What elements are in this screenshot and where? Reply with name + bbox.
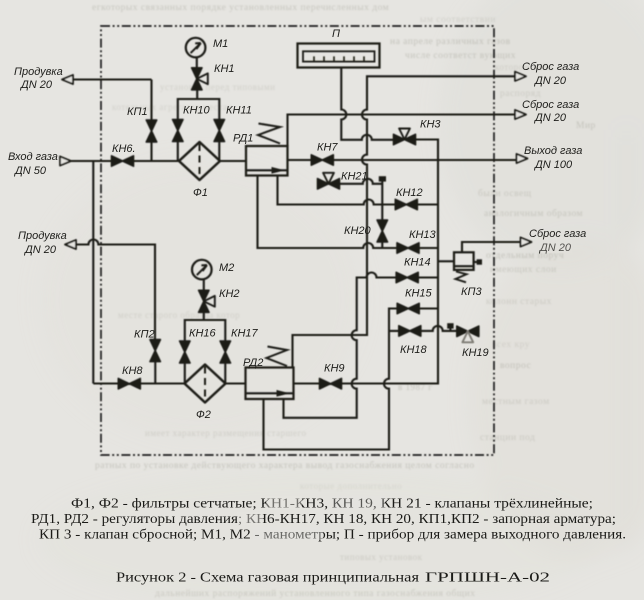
valve KN16 [180,341,190,363]
svg-text:Сброс газа: Сброс газа [529,228,586,240]
valve KN19 three-way [457,326,479,342]
svg-text:егкоторых связанных порядке ус: егкоторых связанных порядке установленны… [92,3,389,13]
valve KN3 three-way [394,129,416,145]
svg-text:типовых установок: типовых установок [340,552,423,562]
svg-text:КН13: КН13 [409,229,437,241]
svg-text:Выход газа: Выход газа [524,145,582,157]
svg-text:КП 3 - клапан сбросной; М1, М2: КП 3 - клапан сбросной; М1, М2 - маномет… [39,527,626,542]
regulator RD2 [246,347,294,400]
wire: KN3 right port to sensing column [342,140,438,384]
svg-text:КН3: КН3 [420,119,441,131]
wire: box over F2 with KN16 KN17 legs [185,320,226,384]
svg-text:Вход газа: Вход газа [8,151,58,163]
wire: KP1 riser [150,80,152,162]
svg-text:ым соответствии: ым соответствии [420,15,496,25]
wire: KN9 to column bottom corner [342,382,438,384]
arrow: inlet Вход газа ДН 50 [60,156,71,165]
svg-text:распоряд: распоряд [500,89,541,99]
svg-text:КН14: КН14 [404,257,431,269]
valve KN21 three-way [318,173,340,189]
svg-text:станции под: станции под [480,433,535,443]
valve KN15 [397,303,419,313]
wire: KN18 line with hop over column, stub and KN19 [389,326,457,331]
wire: RD1 outlet to KN7 and outlet header [288,159,517,161]
svg-text:РД1, РД2 - регуляторы давления: РД1, РД2 - регуляторы давления; КН6-КН17… [31,511,616,526]
valve KN14 [396,272,418,282]
svg-text:ратных по установке действующе: ратных по установке действующего характе… [95,460,475,471]
wire: bypass box over F1 with KN10 KN11 legs [178,99,220,161]
arrow: Продувка ДН 20 upper [62,75,73,84]
svg-text:КН10: КН10 [183,105,211,117]
svg-text:ДN 20: ДN 20 [533,112,567,124]
valve KN6 [112,156,134,166]
wire: KN21 right line to stub [339,179,382,184]
svg-text:КП3: КП3 [461,286,482,298]
svg-text:были освещ: были освещ [478,188,532,199]
valve KN2 three-way [199,290,215,312]
wire: RD2 outlet to KN9 and up-column junction [294,382,343,384]
svg-text:П: П [332,28,340,40]
svg-text:ДN 100: ДN 100 [533,159,573,171]
svg-text:Рисунок 2 - Схема газовая прин: Рисунок 2 - Схема газовая принципиальная [116,570,419,585]
svg-text:ГРПШН-А-02: ГРПШН-А-02 [425,570,550,585]
valve KN9 [320,379,342,389]
arrow: Сброс газа ДН 20 second [515,110,526,119]
relief valve KP3 [454,252,482,282]
wire: KN15 line and left column to RD2 left leg [264,309,439,450]
valve KP1 [146,120,156,142]
cap square on KN19 stub [448,324,454,329]
valve KN18 [399,326,421,336]
valve KN1 three-way [192,68,208,90]
svg-text:КН1: КН1 [214,63,235,75]
svg-text:Сброс газа: Сброс газа [522,99,579,111]
arrow: Выход газа ДН 100 [517,154,528,163]
svg-text:которые дополнительно: которые дополнительно [300,481,402,491]
svg-text:установка перед типовыми: установка перед типовыми [160,82,275,92]
filter F2 [185,365,226,403]
svg-text:М2: М2 [219,262,234,274]
node A: inlet tee to lower branch [92,161,94,384]
svg-text:КН20: КН20 [344,225,372,237]
svg-text:КН11: КН11 [226,105,252,117]
valve KN13 [397,243,419,253]
valve KN8 [118,379,140,389]
svg-text:КН15: КН15 [405,288,433,300]
svg-text:КН7: КН7 [317,142,338,154]
wire: KP3 top vent to Сброс газа 3 [462,242,521,252]
svg-text:числе соответст вующих: числе соответст вующих [405,51,516,61]
wire: KN14 line from RD2 right leg up to column [284,273,439,418]
arrow: Продувка ДН 20 lower [65,240,76,249]
svg-text:КН6.: КН6. [112,143,136,155]
svg-text:дальнейших распоряжений устано: дальнейших распоряжений установленного т… [155,588,475,599]
arrow: Сброс газа ДН 20 lower [521,237,532,246]
wire: RD1 bottom right leg to KN12 line [278,176,439,205]
svg-text:имеет характер размещения стар: имеет характер размещения старшего [145,428,306,438]
wire: F1 to RD1 [220,160,246,162]
valve KN7 [311,155,333,165]
manometer M2 [192,260,212,280]
svg-text:ДN 20: ДN 20 [19,79,53,91]
wire: RD1 bottom left leg to KN13 line [258,176,439,249]
svg-text:Сброс газа: Сброс газа [522,61,579,73]
svg-text:аналогичным образом: аналогичным образом [484,208,583,219]
valve KN20 [377,220,387,242]
svg-text:КН18: КН18 [400,344,428,356]
valve KN11 [214,120,224,142]
manometer M1 [186,38,206,58]
instrument P [298,44,380,68]
svg-text:всех кру: всех кру [492,340,530,350]
svg-text:КН21: КН21 [341,171,368,183]
wire: KN20 stub with cap [381,181,383,248]
wire: P instrument stem with hops, to KN3 left port [341,68,394,140]
svg-text:Ф1, Ф2 - фильтры сетчатые; КН1: Ф1, Ф2 - фильтры сетчатые; КН1-КН3, КН 1… [71,496,593,511]
svg-text:КП1: КП1 [127,106,148,118]
regulator RD1 [246,124,288,176]
valve KN17 [220,341,230,363]
svg-text:колонн старых: колонн старых [486,297,552,307]
svg-text:ДN 20: ДN 20 [23,244,57,256]
wire: KP2 riser to purge line 2 [76,240,155,384]
svg-text:КН2: КН2 [219,288,240,300]
svg-text:месте старого образца котор: месте старого образца котор [118,310,240,320]
svg-text:Ф1: Ф1 [193,187,208,199]
svg-text:КН19: КН19 [462,347,489,359]
svg-text:КН16: КН16 [189,328,217,340]
filter F1 [179,142,220,180]
valve KN12 [395,199,417,209]
wire: vent riser x2 from RD2 top to Сброс газа 1 [293,76,516,367]
wire: M1/KN1 stem [196,58,198,99]
frame border [101,26,494,455]
svg-text:РД2: РД2 [243,357,263,369]
svg-text:Продувка: Продувка [18,230,67,242]
wire: M2/KN2 stem [203,280,205,321]
cap square on KN20 stub [379,177,385,182]
svg-text:КН12: КН12 [396,187,423,199]
wire: purge line 1 from KP1 riser [71,78,152,80]
svg-text:имеющих слои: имеющих слои [490,265,557,275]
svg-text:КН8: КН8 [122,365,143,377]
arrow: Сброс газа ДН 20 top [515,72,526,81]
wire: inlet gas line DN50 [71,160,179,162]
svg-text:КН17: КН17 [231,328,259,340]
svg-text:ДN 50: ДN 50 [13,165,47,177]
svg-text:Мир: Мир [576,121,596,131]
scan fading over some caption words [266,496,302,509]
svg-text:Продувка: Продувка [14,66,63,78]
ghost bleed-through layer [92,3,596,599]
svg-text:КП2: КП2 [134,329,155,341]
svg-text:на апреле различных газов: на апреле различных газов [390,37,511,47]
wire: RD1 top impulse to vent line (Сброс газа 2) [288,115,516,147]
wire: F2 line from KN8 to F2 and RD2 [93,382,245,384]
svg-text:ДN 20: ДN 20 [533,75,567,87]
wire: KP3 inlet from column [438,260,454,262]
svg-text:местным газом: местным газом [482,397,550,407]
svg-text:вопрос: вопрос [500,361,531,371]
valve KN10 [173,120,183,142]
valve KP2 [150,340,160,362]
svg-text:М1: М1 [213,38,228,50]
svg-text:Ф2: Ф2 [196,409,211,421]
svg-text:КН9: КН9 [324,363,345,375]
svg-text:РД1: РД1 [233,133,253,145]
